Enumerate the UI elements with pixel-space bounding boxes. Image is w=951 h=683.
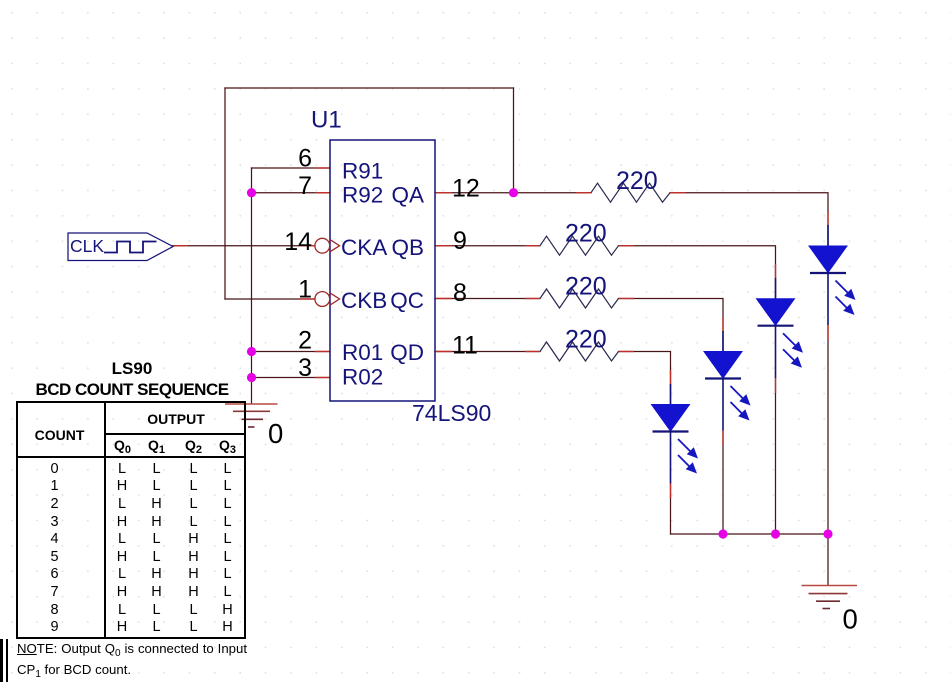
LED3 [704,331,751,431]
junction dot bus ground [823,529,832,538]
truth table title LS90 [0,359,264,379]
LED1 [809,225,856,325]
ground right [802,586,858,609]
truth table rows [16,459,246,461]
svg-text:R91: R91 [342,159,383,184]
svg-text:6: 6 [298,145,312,173]
svg-text:R92: R92 [342,183,383,208]
svg-text:12: 12 [452,175,480,203]
svg-text:14: 14 [284,228,312,256]
svg-text:QC: QC [390,288,424,313]
junction dot bus LED3 [718,529,727,538]
wire pin1 from feedback rail [225,298,315,300]
svg-text:R01: R01 [342,340,383,365]
wire pin 3 [252,377,331,379]
svg-text:7: 7 [298,172,312,200]
wire R2 to LED2 column [619,246,776,299]
LED2 [757,278,804,378]
wire pin 9 to R2 [435,245,540,247]
IC U1 74LS90 body [330,140,435,401]
LED4 [652,384,699,484]
svg-text:CLK: CLK [70,236,104,256]
clock input CLK [68,233,173,261]
svg-text:220: 220 [565,326,607,354]
svg-text:220: 220 [565,220,607,248]
svg-text:CKA: CKA [341,235,387,260]
svg-text:0: 0 [843,604,858,635]
wire bus to ground [827,534,829,585]
svg-text:2: 2 [298,327,312,355]
junction dot pin12 feedback [509,188,518,197]
wire feedback top horizontal y=88 [225,87,514,89]
wire LED2 cathode down to bus [775,378,777,534]
wire pin 2 [252,351,331,353]
pin 14 clock bubble [315,238,340,253]
svg-text:0: 0 [268,418,283,449]
svg-text:220: 220 [565,273,607,301]
junction dot pin3 rail [247,373,256,382]
svg-text:QB: QB [391,235,424,260]
resistor R1 220 [591,167,670,202]
pin 1 clock bubble [315,292,340,307]
svg-text:U1: U1 [311,107,342,134]
truth table [16,401,246,639]
svg-text:220: 220 [616,167,658,195]
resistor R3 220 [540,273,619,309]
wire R1 to LED1 column [670,193,828,246]
wire left rail x=251.5 [251,168,253,404]
wire pin 11 to R4 [435,351,540,353]
wire CLK to pin 14 [173,245,316,247]
svg-text:QD: QD [390,340,424,365]
svg-text:74LS90: 74LS90 [412,400,491,426]
wire feedback vertical x=225 QA to CKB [224,88,226,299]
resistor R2 220 [540,220,619,256]
svg-text:CKB: CKB [341,288,387,313]
junction dot pin7 rail [247,188,256,197]
junction dot bus LED2 [771,529,780,538]
revision bars [0,639,3,682]
wire LED4 cathode down to bus [670,484,672,535]
wire pin 7 [252,192,331,194]
wire pin 12 to R1 [435,192,591,194]
junction dot pin2 rail [247,347,256,356]
wire feedback vertical x=513.5 down to pin12 net [513,88,515,193]
svg-text:8: 8 [453,279,467,307]
wire pin 8 to R3 [435,298,540,300]
wire bottom bus [671,533,829,535]
svg-text:11: 11 [452,332,478,360]
svg-text:R02: R02 [342,365,383,390]
svg-text:1: 1 [298,276,312,304]
wire pin 6 [252,167,331,169]
wire R4 to LED4 column [619,352,671,405]
wire LED1 cathode down to bus [827,325,829,534]
ground left [225,404,278,427]
svg-text:QA: QA [391,183,424,208]
red pin stubs [173,168,829,498]
wire R3 to LED3 column [619,299,724,352]
note text [17,641,247,683]
resistor R4 220 [540,326,619,362]
svg-text:9: 9 [453,227,467,255]
svg-text:3: 3 [298,354,312,382]
wire LED3 cathode down to bus [722,431,724,535]
truth table title BCD COUNT SEQUENCE [0,380,264,400]
